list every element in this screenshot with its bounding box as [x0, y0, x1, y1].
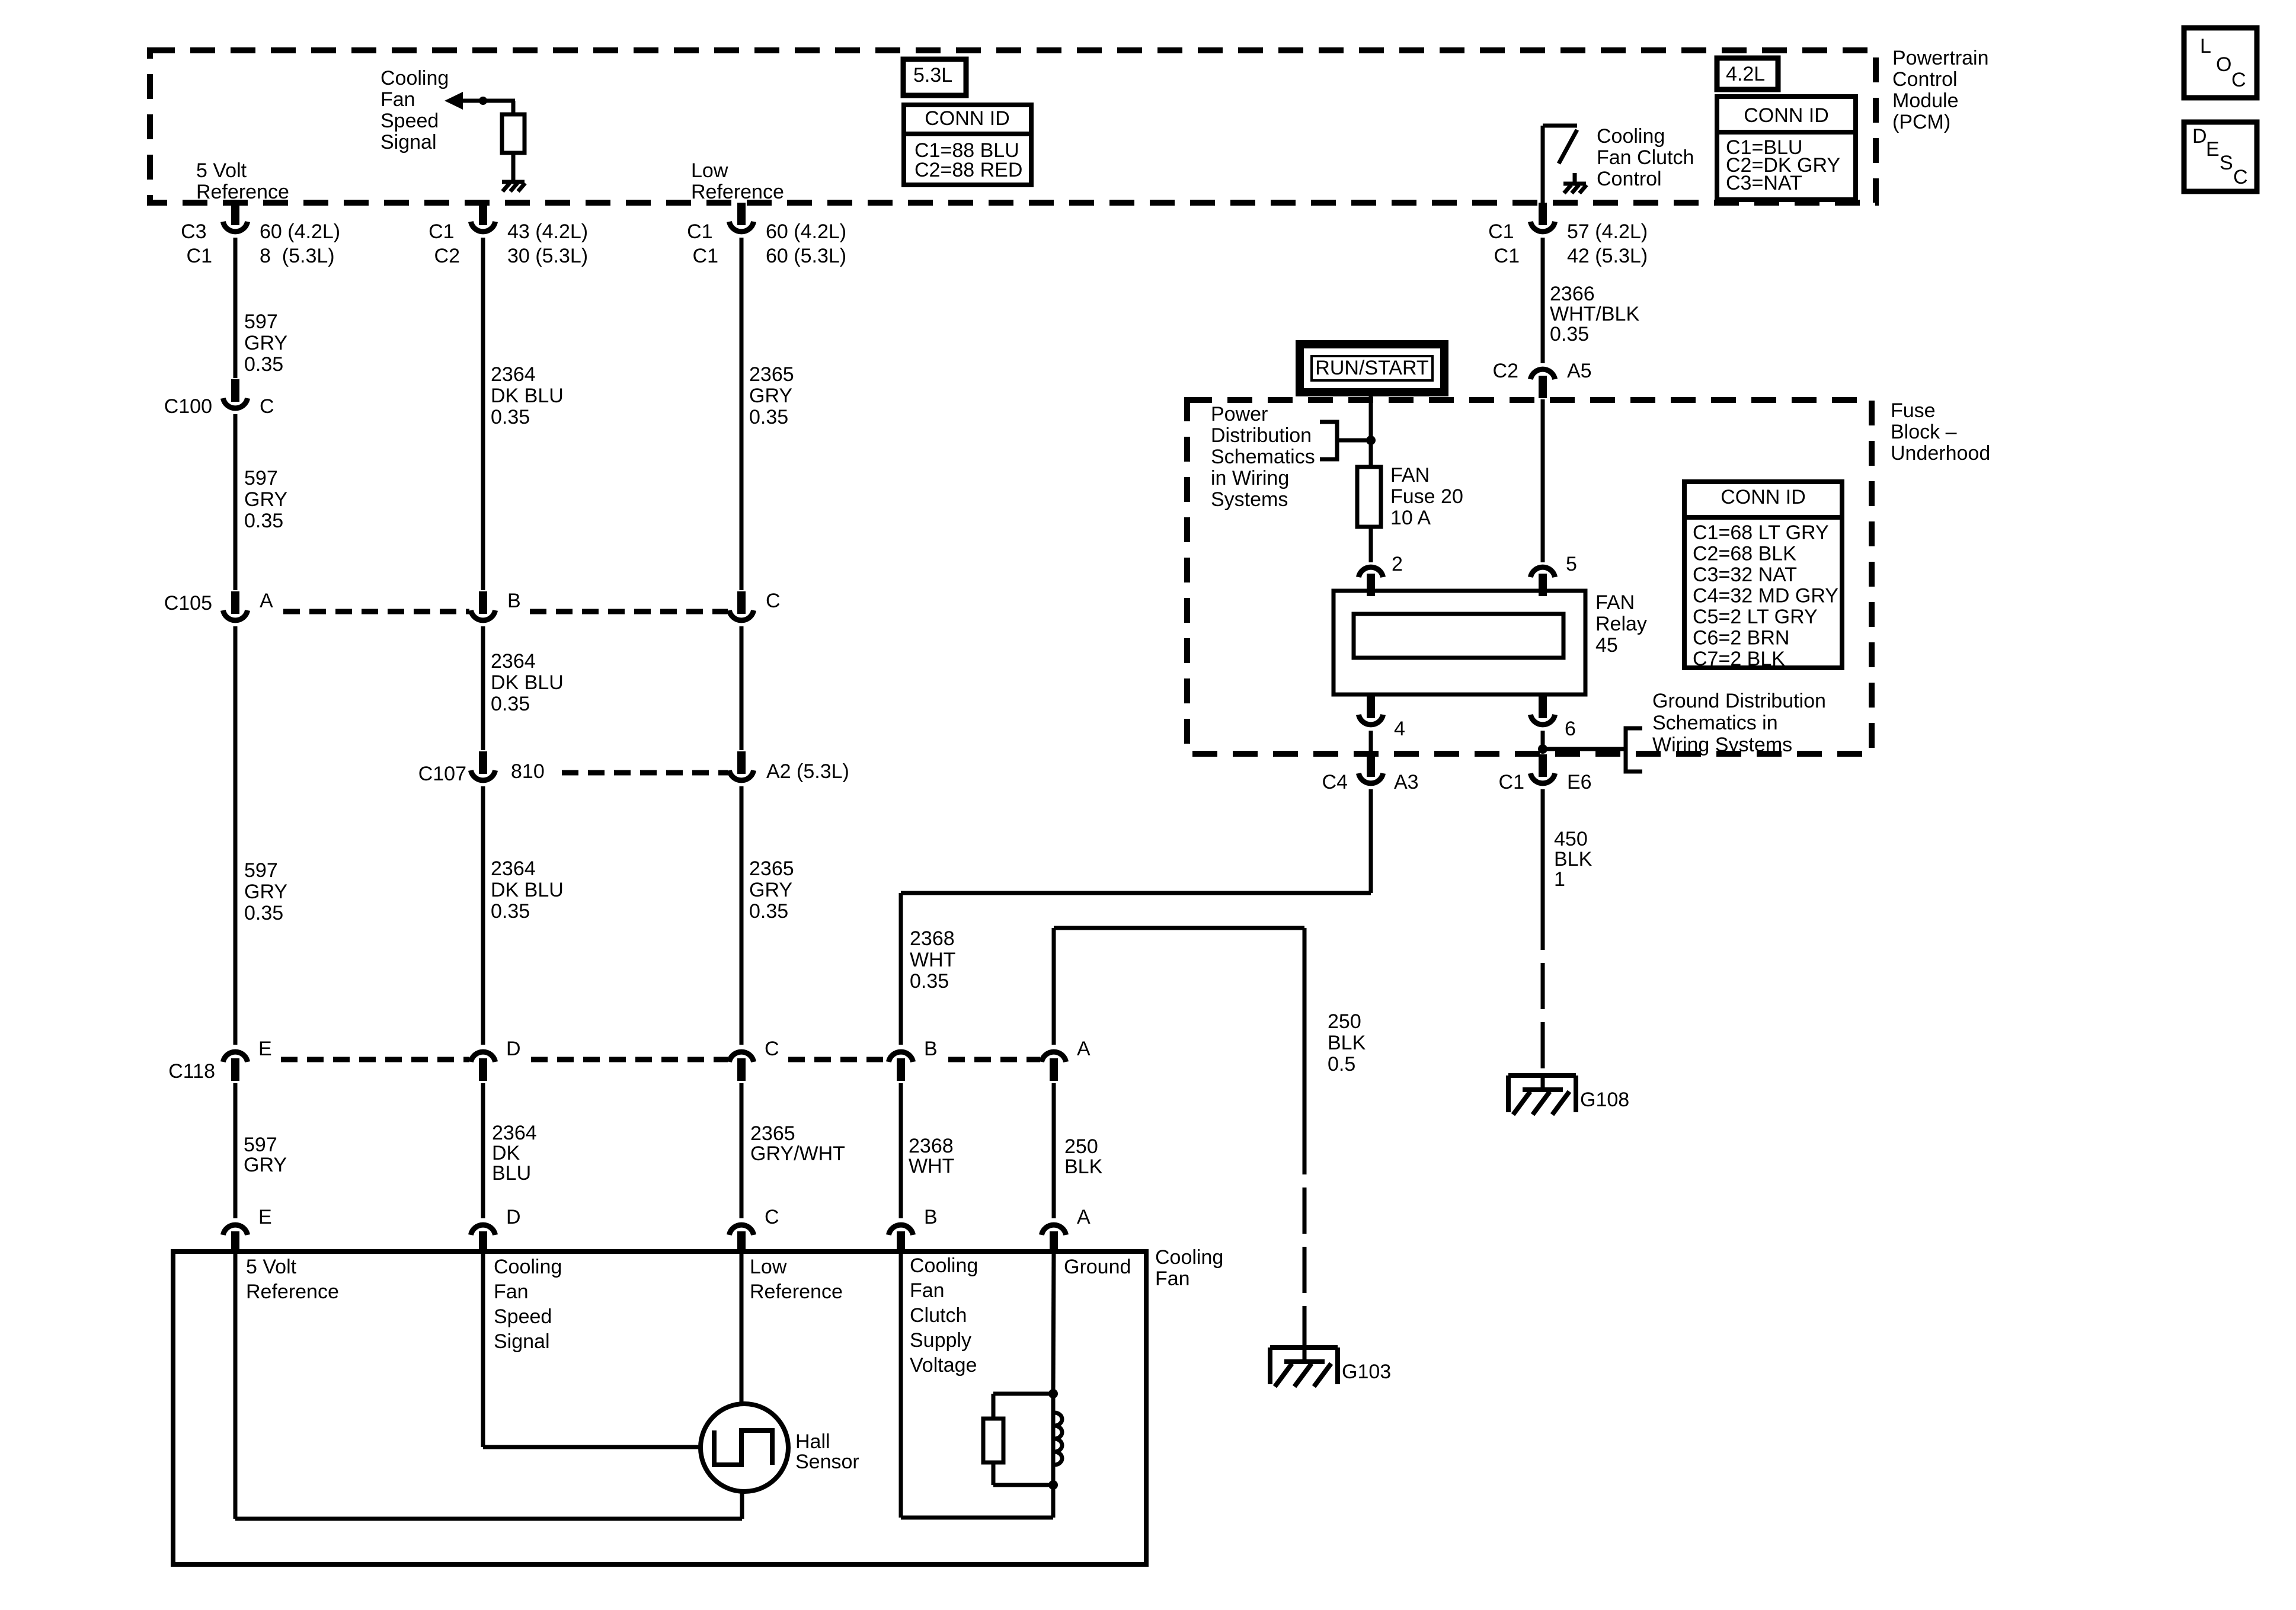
- wire 2364 segment C107 to C118: [481, 786, 485, 1045]
- svg-text:RUN/START: RUN/START: [1315, 357, 1428, 379]
- junction dot clutch coil top: [1048, 1389, 1058, 1398]
- connector C2/A5 at fuse block: [1493, 360, 1592, 398]
- wire speed signal inside fan box: [483, 1251, 701, 1447]
- svg-text:O: O: [2216, 53, 2231, 76]
- svg-text:CONN ID: CONN ID: [925, 107, 1010, 130]
- wire 250 BLK below C118: [1052, 1083, 1056, 1218]
- svg-text:C: C: [765, 1038, 779, 1060]
- svg-text:A: A: [260, 590, 273, 612]
- connector A2 (5.3L): [729, 751, 849, 783]
- svg-text:C: C: [765, 1206, 779, 1228]
- connector C105 pin A: [164, 590, 273, 620]
- PCM connector pin C1/C2 (Speed Signal): [428, 203, 593, 267]
- svg-text:Ground: Ground: [1064, 1256, 1131, 1278]
- svg-text:A: A: [1077, 1206, 1091, 1228]
- wire 2364 DK BLU below C118: [481, 1083, 485, 1218]
- svg-text:G103: G103: [1342, 1361, 1391, 1383]
- svg-text:810: 810: [511, 760, 545, 783]
- FAN Fuse 20 10A: [1357, 464, 1469, 529]
- connector C1/E6: [1499, 754, 1592, 793]
- connector C118 pin C: [729, 1038, 779, 1081]
- svg-text:4: 4: [1394, 718, 1405, 740]
- CONN ID box (Fuse Block): [1684, 482, 1844, 670]
- wire 450 BLK 1 from C1/E6 to G108: [1541, 789, 1545, 1074]
- CONN ID box (5.3L): [904, 105, 1031, 185]
- ground (PCM internal, resistor): [502, 182, 525, 191]
- cooling fan connector pin E: [223, 1206, 271, 1254]
- svg-text:A: A: [1077, 1038, 1091, 1060]
- RUN/START power tag: [1300, 344, 1444, 392]
- svg-text:B: B: [924, 1206, 938, 1228]
- wire 2365 segment C105 to A2: [740, 626, 744, 750]
- wire 250 BLK 0.5 from fan ground to G103: [1054, 928, 1304, 1347]
- junction dot power feed: [1366, 436, 1376, 445]
- wire 2364 segment C105 to C107: [481, 626, 485, 750]
- clutch coil (inductor): [1053, 1394, 1062, 1485]
- svg-text:C105: C105: [164, 592, 212, 614]
- PCM connector pin C3/C1 (5 Volt Reference): [181, 203, 346, 267]
- cooling fan connector pin A: [1041, 1206, 1091, 1254]
- FAN Relay 45 box: [1334, 591, 1585, 694]
- Cooling Fan component box: [173, 1251, 1146, 1564]
- svg-text:2368 WHT: 2368 WHT: [909, 1135, 959, 1177]
- connector C105 pin C: [729, 590, 780, 620]
- pull-up resistor inside PCM: [502, 101, 525, 181]
- wire 2368 WHT below C118: [899, 1083, 903, 1218]
- svg-text:A3: A3: [1394, 771, 1419, 793]
- svg-text:B: B: [924, 1038, 938, 1060]
- connector C4/A3: [1322, 754, 1419, 793]
- relay pin 2 connector: [1358, 553, 1403, 596]
- connector C107: [418, 751, 545, 785]
- connector C118 pin A: [1041, 1038, 1091, 1081]
- svg-text:C4: C4: [1322, 771, 1348, 793]
- svg-text:C1: C1: [1499, 771, 1524, 793]
- svg-text:5: 5: [1566, 553, 1577, 575]
- svg-text:C: C: [2233, 166, 2248, 188]
- svg-text:C: C: [766, 590, 781, 612]
- svg-text:G108: G108: [1580, 1089, 1629, 1111]
- junction dot at speed-signal node: [479, 97, 487, 105]
- svg-text:E: E: [258, 1038, 272, 1060]
- svg-text:E: E: [258, 1206, 272, 1228]
- svg-text:2: 2: [1392, 553, 1403, 575]
- cooling fan connector pin D: [471, 1206, 520, 1254]
- CONN ID box (4.2L): [1717, 97, 1856, 200]
- svg-text:D: D: [506, 1206, 521, 1228]
- svg-text:C1=88 BLU C2=88 RED: C1=88 BLU C2=88 RED: [914, 139, 1025, 181]
- ground G103: [1270, 1347, 1391, 1387]
- dashed harness wire C118 D-C: [531, 1057, 728, 1062]
- wire 2366 WHT/BLK PCM to C2/A5: [1541, 238, 1545, 363]
- svg-text:4.2L: 4.2L: [1726, 63, 1765, 85]
- cooling fan connector pin C: [729, 1206, 779, 1254]
- wire 2365 GRY segment PCM to C105: [740, 238, 744, 590]
- connector C118 pin D: [471, 1038, 520, 1081]
- dashed harness wire C105 A-B: [283, 609, 469, 614]
- svg-text:L: L: [2200, 35, 2211, 57]
- junction dot clutch coil bottom: [1048, 1480, 1058, 1490]
- clutch resistor branch: [983, 1394, 1053, 1485]
- wire RUN/START to fuse: [1369, 392, 1373, 467]
- wire pin4 to C4/A3: [1369, 731, 1373, 753]
- ground distribution bracket: [1543, 728, 1642, 772]
- svg-text:C100: C100: [164, 395, 212, 418]
- PCM Powertrain Control Module dashed box: [150, 50, 1876, 203]
- wire 2368 WHT from C4/A3 routing left: [901, 789, 1371, 1045]
- wire clutch supply inside fan box: [901, 1251, 1053, 1518]
- svg-text:597 GRY: 597 GRY: [244, 1134, 287, 1176]
- svg-text:C: C: [2231, 69, 2246, 91]
- svg-text:C2: C2: [1493, 360, 1518, 382]
- svg-text:CONN ID: CONN ID: [1744, 104, 1829, 127]
- svg-text:5.3L: 5.3L: [913, 64, 952, 87]
- svg-text:C118: C118: [168, 1060, 215, 1083]
- svg-text:C: C: [260, 395, 274, 418]
- relay pin 5 connector: [1530, 553, 1577, 596]
- connector C100: [164, 379, 274, 418]
- ground G108: [1508, 1076, 1629, 1115]
- signal arrow: [445, 92, 515, 110]
- PCM connector pin C1/C1 (Clutch Control): [1488, 203, 1653, 267]
- LOC legend box: [2184, 28, 2257, 98]
- wire 597 GRY segment C105 to C118: [234, 626, 238, 1045]
- dashed harness wire C107 to A2: [562, 770, 728, 776]
- dashed harness wire C118 C-B: [788, 1057, 887, 1062]
- svg-text:C107: C107: [418, 763, 466, 785]
- dashed harness wire C118 B-A: [948, 1057, 1040, 1062]
- wire 597 GRY below C118: [234, 1083, 238, 1218]
- wire 2364 DK BLU segment PCM to C105: [481, 238, 485, 590]
- connector C118 pin E: [168, 1038, 271, 1083]
- Hall Sensor circle: [701, 1404, 788, 1491]
- 4.2L tag box: [1717, 58, 1778, 89]
- svg-text:250 BLK: 250 BLK: [1064, 1135, 1104, 1178]
- svg-text:CONN ID: CONN ID: [1721, 486, 1806, 508]
- Fuse Block Underhood dashed box: [1187, 400, 1872, 754]
- relay pin 6 connector: [1530, 696, 1576, 740]
- cooling fan connector pin B: [888, 1206, 937, 1254]
- svg-text:E: E: [2206, 138, 2220, 161]
- wire A5 to relay pin 5: [1541, 399, 1545, 562]
- svg-text:6: 6: [1565, 718, 1576, 740]
- wire 2365 segment A2 to C118: [740, 786, 744, 1045]
- svg-text:E6: E6: [1567, 771, 1592, 793]
- ground (PCM internal, switch): [1563, 184, 1587, 193]
- wire ground inside fan box: [1053, 1251, 1054, 1394]
- power distribution bracket: [1320, 422, 1371, 459]
- wire pin6 to C1/E6: [1541, 731, 1545, 753]
- junction dot ground distribution: [1538, 744, 1547, 754]
- dashed harness wire C105 B-C: [530, 609, 728, 614]
- svg-text:B: B: [507, 590, 521, 612]
- svg-text:S: S: [2220, 152, 2233, 174]
- svg-text:D: D: [2192, 125, 2207, 148]
- wire fuse to relay pin 2: [1369, 527, 1373, 562]
- PCM connector pin C1/C1 (Low Reference): [687, 203, 852, 267]
- wire 597 GRY segment PCM to C100: [234, 238, 238, 378]
- wire 597 GRY segment C100 to C105: [234, 414, 238, 590]
- wire low ref inside fan box: [740, 1251, 744, 1404]
- svg-text:A5: A5: [1567, 360, 1592, 382]
- wire 5V ref inside fan box: [235, 1251, 742, 1519]
- svg-text:A2 (5.3L): A2 (5.3L): [766, 760, 849, 783]
- relay pin 4 connector: [1358, 696, 1405, 740]
- connector C105 pin B: [471, 590, 520, 620]
- wire 2365 GRY/WHT below C118: [740, 1083, 744, 1218]
- svg-text:D: D: [506, 1038, 521, 1060]
- connector C118 pin B: [888, 1038, 937, 1081]
- DESC legend box: [2184, 122, 2257, 191]
- PCM internal: fan clutch driver switch: [1543, 126, 1577, 203]
- 5.3L tag box: [903, 59, 966, 95]
- dashed harness wire C118 E-D: [281, 1057, 469, 1062]
